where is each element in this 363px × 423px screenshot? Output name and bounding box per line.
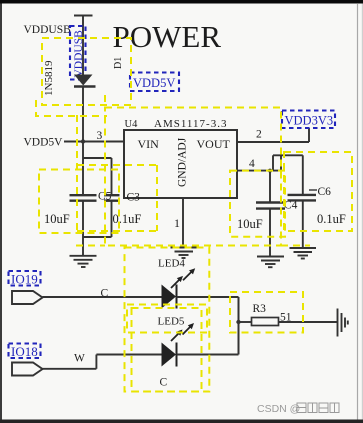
svg-text:POWER: POWER	[113, 19, 222, 54]
ground right (rotated)	[338, 309, 348, 337]
capacitor C3 0.1uF	[83, 158, 141, 237]
wire LED5 to right bus	[177, 354, 239, 356]
svg-text:LED4: LED4	[158, 258, 185, 270]
ground below C4	[257, 257, 284, 268]
svg-text:C3: C3	[127, 192, 141, 204]
svg-text:10uF: 10uF	[44, 212, 70, 226]
svg-text:VDDUSB: VDDUSB	[24, 24, 72, 36]
svg-text:R3: R3	[253, 303, 267, 315]
svg-text:IO18: IO18	[11, 344, 38, 359]
highlight box around LED5 label (yellow)	[127, 305, 207, 333]
capacitor C4 10uF	[237, 169, 298, 257]
regulator U4 AMS1117-3.3	[124, 118, 237, 198]
svg-text:GND/ADJ: GND/ADJ	[177, 137, 189, 187]
highlight box around C6 (yellow)	[284, 152, 352, 231]
power port VDDUSB	[24, 16, 93, 75]
svg-text:1N5819: 1N5819	[43, 60, 55, 96]
wire pin 2 VOUT to VDD3V3	[237, 128, 309, 142]
svg-text:VDD3V3: VDD3V3	[285, 114, 334, 128]
connector IO18	[9, 344, 43, 376]
svg-text:VDD5V: VDD5V	[24, 137, 64, 149]
diode D1 1N5819	[43, 57, 124, 96]
svg-text:VDD5V: VDD5V	[133, 76, 175, 90]
wire IO19 to LED4, net C	[42, 288, 161, 300]
net label VDD5V (blue)	[130, 73, 179, 92]
highlight box around R3 (yellow)	[230, 292, 303, 333]
highlight box around C5 (yellow)	[39, 170, 119, 234]
net label VDD5V + wire to VIN	[24, 130, 125, 149]
title POWER	[113, 19, 222, 54]
svg-text:AMS1117-3.3: AMS1117-3.3	[154, 118, 227, 130]
svg-text:LED5: LED5	[158, 316, 185, 328]
wire pin 1 GND	[174, 198, 183, 248]
svg-text:U4: U4	[125, 119, 139, 130]
wire LED4 to right bus	[177, 297, 241, 355]
wire IO18 to LED5, net W	[42, 353, 161, 369]
svg-text:2: 2	[256, 129, 262, 141]
svg-text:10uF: 10uF	[237, 217, 263, 231]
wire diode to VIN rail	[82, 87, 84, 142]
svg-text:C: C	[101, 288, 109, 300]
capacitor C5 10uF	[44, 142, 112, 256]
watermark CSDN	[257, 403, 339, 415]
highlight box around LED5 (yellow)	[132, 308, 202, 392]
svg-text:C6: C6	[318, 186, 332, 198]
svg-text:CSDN @: CSDN @	[257, 403, 300, 415]
svg-text:VIN: VIN	[138, 137, 160, 151]
resistor R3 51	[239, 303, 338, 326]
svg-text:3: 3	[97, 130, 103, 142]
svg-text:IO19: IO19	[11, 272, 38, 287]
net label VDDUSB (blue, rotated)	[70, 26, 86, 80]
ground below C6	[290, 248, 317, 259]
svg-text:VOUT: VOUT	[197, 137, 231, 151]
capacitor C6 0.1uF	[288, 155, 346, 248]
svg-text:C: C	[160, 377, 168, 389]
LED LED4	[158, 258, 195, 309]
LED LED5	[158, 316, 195, 389]
net label VDD3V3 (blue)	[282, 111, 335, 129]
svg-text:51: 51	[280, 312, 292, 324]
connector IO19	[9, 271, 43, 304]
svg-text:W: W	[74, 353, 85, 365]
highlight box around C3 (yellow)	[77, 115, 157, 231]
wire pin 4	[237, 155, 303, 170]
svg-text:0.1uF: 0.1uF	[113, 212, 142, 226]
highlight box around LEDs outer (yellow)	[125, 248, 210, 392]
highlight box around regulator (yellow)	[76, 108, 310, 246]
ground below C5	[70, 256, 97, 267]
ground below pin 1	[171, 248, 198, 259]
svg-text:D1: D1	[113, 57, 124, 69]
svg-text:4: 4	[249, 158, 255, 170]
svg-text:0.1uF: 0.1uF	[317, 212, 346, 226]
highlight box around C4 (yellow)	[230, 171, 285, 237]
highlight box around D1 (yellow)	[36, 38, 131, 116]
svg-text:1: 1	[174, 216, 180, 230]
